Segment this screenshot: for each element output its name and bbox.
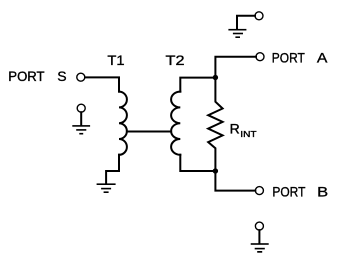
- svg-text:R: R: [230, 120, 240, 136]
- svg-text:T2: T2: [166, 52, 185, 68]
- svg-text:PORT: PORT: [272, 50, 305, 66]
- svg-text:S: S: [57, 68, 66, 84]
- svg-text:A: A: [317, 50, 328, 66]
- svg-text:T1: T1: [107, 52, 124, 68]
- svg-text:B: B: [317, 183, 328, 199]
- svg-text:PORT: PORT: [272, 183, 305, 199]
- svg-text:PORT: PORT: [8, 68, 45, 84]
- svg-text:INT: INT: [240, 129, 256, 139]
